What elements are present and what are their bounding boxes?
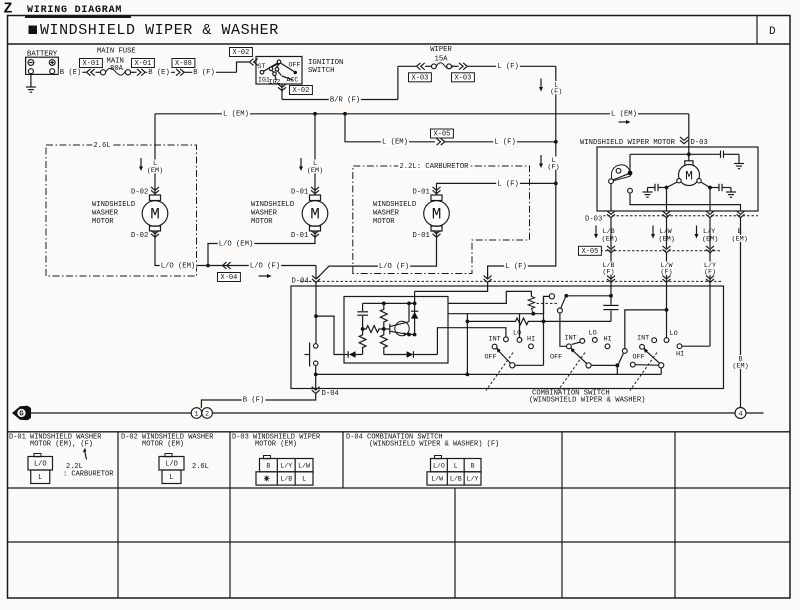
svg-text:2: 2 (205, 410, 209, 418)
svg-text:L/B: L/B (450, 476, 462, 483)
label L/Y (F) (703, 262, 717, 269)
wire Q1 emitter node (409, 334, 415, 336)
svg-text:LO: LO (513, 329, 521, 337)
svg-text:B: B (471, 462, 475, 469)
wire cam P1 to L/B column (610, 184, 612, 211)
svg-text:WASHER: WASHER (373, 209, 400, 217)
wire L(F) vertical drop (555, 66, 557, 183)
svg-text:OFF: OFF (633, 353, 645, 361)
svg-text:D-01: D-01 (413, 188, 430, 196)
wire cam pivot to top bus (629, 154, 631, 170)
washer motor D-01 (2.2L carburetor) (433, 187, 441, 194)
wire R3 bottom node (362, 354, 364, 356)
wire L/W (F) segment (666, 253, 668, 338)
switch group 2 mech dashes (558, 353, 585, 391)
svg-text:MOTOR: MOTOR (373, 218, 395, 226)
junction dots H2 (466, 320, 470, 324)
svg-text:MOTOR: MOTOR (251, 218, 273, 226)
switch group 3 HI contact (677, 344, 682, 349)
svg-text:15A: 15A (435, 55, 449, 63)
wire L/O to relay diode D2 (316, 316, 348, 354)
svg-text:L/O: L/O (433, 462, 445, 469)
label L/O (EM) upper (218, 240, 255, 247)
wire L/W column inside box (666, 188, 668, 212)
connector D-03 dashed line (585, 215, 758, 217)
svg-text:L: L (169, 474, 173, 482)
svg-text:2.6L: 2.6L (192, 463, 209, 471)
label L (EM) bus right (610, 110, 638, 117)
svg-text:M: M (310, 205, 320, 223)
svg-text:(EM): (EM) (147, 167, 163, 175)
svg-text:(EM): (EM) (732, 235, 748, 243)
svg-text:MOTOR: MOTOR (92, 218, 114, 226)
wiper motor M (685, 161, 693, 165)
connector X-03 left chevron (417, 63, 425, 70)
wire L/Y (EM) segment (709, 218, 711, 248)
switch group 1 common wire (515, 364, 544, 366)
svg-text:D-02: D-02 (131, 232, 148, 240)
wire relay supply riser (414, 291, 416, 303)
wire battery to main fuse B(E) (58, 71, 86, 73)
svg-text:(F): (F) (602, 268, 614, 276)
svg-text:L (F): L (F) (497, 180, 519, 188)
wire L/W (EM) segment (666, 218, 668, 248)
svg-text:L/W: L/W (431, 476, 443, 483)
junction dot L/W node (665, 308, 669, 312)
label 2.6L (92, 141, 111, 148)
svg-text:L/O (F): L/O (F) (250, 262, 280, 270)
connector drawing D-04 (435, 456, 442, 459)
label L/O (EM) left (160, 262, 197, 269)
ignition switch S1 box (256, 57, 302, 85)
table column x=675 (674, 432, 676, 598)
svg-text:X-02: X-02 (233, 49, 250, 57)
svg-text:X-05: X-05 (434, 131, 451, 139)
washer motor D-02 (2.6L) (151, 187, 159, 194)
flow arrows EM columns (595, 226, 597, 236)
svg-text:B (F): B (F) (193, 69, 215, 77)
label D-03 lower (584, 215, 603, 222)
wire ignition switch output (281, 84, 283, 100)
relay contact C (557, 308, 562, 313)
switch group 3 INT contact (652, 338, 657, 343)
resistor R4 vertical (380, 329, 387, 355)
switch group 1 arm (497, 350, 510, 364)
svg-text:G: G (19, 411, 24, 419)
ground G1 in wiper motor (734, 163, 744, 165)
svg-text:(WINDSHIELD WIPER & WASHER): (WINDSHIELD WIPER & WASHER) (529, 396, 645, 404)
connector X-05 dashed line (578, 250, 722, 252)
connector X-05 chevrons (607, 246, 615, 253)
svg-text:L/O: L/O (34, 461, 47, 469)
svg-text:L/O (EM): L/O (EM) (219, 240, 254, 248)
wire group 2 dot to bus (616, 365, 618, 374)
svg-text:L/B: L/B (280, 476, 292, 483)
label X-01 left (80, 59, 103, 68)
wire C to g2 fed circle (560, 345, 567, 346)
ground bus wire left (31, 412, 191, 414)
table row line 2 (8, 487, 791, 489)
svg-text:HI: HI (527, 336, 535, 344)
svg-text:LO: LO (670, 330, 678, 338)
wire motor left brush (667, 182, 678, 188)
svg-text:(EM): (EM) (659, 235, 675, 243)
wire L/O to X-04 (210, 265, 316, 267)
svg-text:HI: HI (676, 351, 684, 359)
connector X-08 chevron (176, 69, 184, 76)
svg-text:LO: LO (589, 329, 597, 337)
connector D-03 chevrons (607, 211, 615, 218)
label X-05 right (579, 246, 602, 255)
ground G3 in wiper motor (726, 191, 736, 193)
svg-text:X-03: X-03 (455, 75, 472, 83)
svg-text:1: 1 (194, 410, 198, 418)
flow arrow X-04 (259, 275, 269, 277)
svg-text:WASHER: WASHER (92, 209, 119, 217)
ground bus wire middle (212, 412, 735, 414)
svg-text:(F): (F) (550, 88, 562, 96)
svg-text:(EM): (EM) (702, 235, 718, 243)
switch group 1 common (510, 363, 515, 368)
label X-03 left (409, 73, 432, 82)
junction dots relay top bus (382, 302, 386, 306)
LO1 riser from H1 (519, 314, 521, 338)
wire X-08 to ignition B(F) (185, 71, 237, 73)
switch group 1 INT contact (504, 337, 509, 342)
wiper fuse F2 15A (425, 65, 432, 67)
relay top bus (363, 302, 415, 304)
wire branch to L(F) junction (445, 141, 556, 143)
diode D2 (left, points left) (347, 351, 349, 358)
table column x=455 (rows2-3) (454, 488, 456, 598)
junction dot L/O lines (206, 264, 210, 268)
switch group 2 junction dot (615, 363, 619, 367)
switch group 2 common wire (591, 364, 615, 366)
label L/B (F) (601, 262, 615, 269)
V2 rail (543, 296, 545, 365)
svg-text:D-01: D-01 (291, 232, 308, 240)
svg-text:L/O (F): L/O (F) (379, 263, 409, 271)
label X-02 lower (290, 86, 313, 95)
capacitor C2 (left) (654, 184, 656, 191)
svg-text:WIPER: WIPER (430, 46, 452, 54)
switch group 3 arm (644, 350, 659, 364)
svg-text:X-01: X-01 (135, 60, 152, 68)
svg-text:B (E): B (E) (60, 69, 82, 77)
joint circle 2 (202, 408, 213, 419)
table column x=118 (117, 432, 119, 598)
svg-text:WIRING DIAGRAM: WIRING DIAGRAM (27, 5, 122, 16)
flow arrow L(EM) D-01 (300, 158, 302, 168)
svg-text:2.2L: CARBURETOR: 2.2L: CARBURETOR (399, 163, 469, 171)
switch group 1 LO contact (517, 338, 522, 343)
junction dot L(F)/motor feed (554, 182, 558, 186)
svg-text:L/O: L/O (165, 461, 178, 469)
switch group 2 park arm (619, 353, 624, 364)
wire L(EM) main bus (155, 113, 689, 115)
label L/W (F) (659, 262, 673, 269)
svg-text:X-01: X-01 (83, 60, 100, 68)
svg-text:4: 4 (738, 410, 742, 418)
svg-text:L/Y: L/Y (467, 476, 479, 483)
wire B/R(F) to wiper fuse (282, 99, 398, 101)
svg-text:L (EM): L (EM) (611, 111, 637, 119)
switch group 3 OFF wire (635, 364, 658, 367)
junction dot washer/B bus (314, 373, 318, 377)
label L (EM) at D-01 (312, 160, 318, 167)
switch group 3 LO contact (on L/W) (664, 338, 669, 343)
svg-text:L (EM): L (EM) (223, 111, 249, 119)
svg-text:X-03: X-03 (412, 75, 429, 83)
wire fuse to L(F) drop (468, 65, 556, 67)
dash-dot box 2.6L (46, 145, 197, 276)
junction dot coil bottom (531, 312, 535, 316)
label L/O (F) (249, 262, 281, 269)
junction dot L/O split (314, 314, 318, 318)
wire L/B (EM) segment (610, 218, 612, 248)
wire cam P2 to B line (630, 193, 741, 211)
cam pivot dot (628, 171, 633, 176)
wire L(F) into combination switch (488, 183, 556, 278)
dash-dot box 2.2L CARBURETOR (353, 166, 530, 274)
wire L/O inside box (315, 282, 317, 344)
connector drawing D-01 (34, 454, 41, 457)
wire into wiper fuse (398, 65, 416, 67)
svg-text:L/W: L/W (298, 462, 310, 469)
svg-text:B/R (F): B/R (F) (330, 96, 360, 104)
switch group 2 park wire to L/W (625, 310, 665, 349)
svg-text:WINDSHIELD: WINDSHIELD (92, 201, 135, 209)
connector X-04 chevron (223, 262, 231, 269)
svg-text:MOTOR (EM): MOTOR (EM) (255, 441, 297, 449)
svg-text:L (F): L (F) (497, 63, 519, 71)
svg-text:B (E): B (E) (148, 69, 170, 77)
svg-text:(F): (F) (547, 163, 559, 171)
svg-text:: CARBURETOR: : CARBURETOR (63, 470, 114, 478)
svg-text:L (F): L (F) (494, 139, 516, 147)
label X-08 (172, 59, 195, 68)
svg-text:L/O (EM): L/O (EM) (161, 262, 196, 270)
header D cell divider (756, 16, 758, 45)
svg-text:D-01: D-01 (413, 232, 430, 240)
svg-text:WINDSHIELD WIPER & WASHER: WINDSHIELD WIPER & WASHER (40, 22, 279, 39)
resistor R3 vertical (359, 329, 366, 355)
connector drawing D-02 (165, 454, 172, 457)
table column x=343 (row1) (342, 432, 344, 488)
wiper motor box (597, 147, 758, 211)
svg-text:(F): (F) (660, 268, 672, 276)
cam arm (611, 174, 628, 181)
transistor Q1 (395, 321, 409, 335)
svg-text:L: L (302, 476, 306, 483)
switch group 1 arm top circle (492, 344, 497, 349)
svg-text:(EM): (EM) (732, 362, 748, 370)
connector D-04 chevron L/O (312, 276, 320, 283)
svg-text:MOTOR (EM): MOTOR (EM) (142, 441, 184, 449)
junction dot V1 bus (466, 373, 470, 377)
wire contact C drop (559, 313, 561, 345)
svg-text:X-05: X-05 (582, 248, 599, 256)
wire D-01 motor to L/O junction (208, 231, 315, 266)
switch group 1 HI contact (529, 344, 534, 349)
connector X-02 lower chevron (278, 84, 286, 91)
capacitor C1 (top right) (720, 151, 722, 158)
svg-text:D-01: D-01 (291, 188, 308, 196)
connector D-04 chevrons right (607, 276, 615, 283)
switch group 2 LO contact (592, 338, 597, 343)
svg-text:MOTOR (EM), (F): MOTOR (EM), (F) (30, 441, 93, 449)
label X-01 right (132, 59, 155, 68)
svg-text:X-08: X-08 (175, 60, 192, 68)
wire group 3 common to bus (660, 368, 662, 375)
svg-text:B: B (266, 462, 270, 469)
svg-text:WINDSHIELD: WINDSHIELD (373, 201, 416, 209)
label X-04 (218, 273, 241, 282)
junction dot wiper motor top (687, 152, 691, 156)
junction dot base node (382, 327, 386, 331)
svg-text:(F): (F) (704, 268, 716, 276)
washer push switch SW (314, 344, 318, 348)
wire L(F) to relay supply (415, 282, 488, 292)
wire D-02 motor to L/O junction (155, 231, 206, 266)
diode D3 (right, points right) (384, 354, 407, 356)
switch group 2 fed circle (567, 344, 572, 349)
switch group 2 park contact (622, 349, 627, 354)
diode D1 vertical (414, 303, 416, 334)
switch group 1 mech dashes (486, 353, 513, 391)
header strip bottom line (8, 43, 791, 45)
relay H1 rail (448, 313, 544, 315)
svg-text:IGNITION: IGNITION (308, 59, 343, 67)
cam plate (park switch) (611, 165, 631, 181)
connector X-01 left chevron (87, 69, 95, 76)
V1 common rail (466, 314, 468, 375)
svg-text:B (F): B (F) (243, 397, 265, 405)
junction dot C4 bottom (361, 327, 365, 331)
main fuse F1 80A (96, 71, 101, 73)
resistor R1 vertical (380, 303, 387, 329)
switch group 3 common (659, 363, 664, 368)
flow arrow L(EM) D-02 (140, 158, 142, 168)
connector D-04 chevron L(F) (484, 276, 492, 283)
svg-text:L: L (454, 462, 458, 469)
cam contact P2 (628, 188, 633, 193)
switch group 2 common (586, 363, 591, 368)
wire 2.2L motor return L/O(F) (317, 231, 437, 279)
wire B(F) from D-04 (201, 393, 315, 409)
ignition switch contacts (277, 60, 281, 64)
switch group 2 arm (571, 349, 587, 363)
wire washer switch to B bus (315, 365, 317, 388)
svg-text:M: M (432, 205, 442, 223)
table row line 3 (8, 541, 791, 543)
svg-text:INT: INT (489, 335, 501, 343)
label X-03 right (452, 73, 475, 82)
wire L/B (F) segment (610, 253, 612, 296)
svg-text:(EM): (EM) (307, 167, 323, 175)
label 2.2L: CARBURETOR (398, 162, 469, 169)
label X-02 upper (230, 48, 253, 57)
connector X-05 chevron on branch (437, 138, 445, 145)
relay arm pivot dot (564, 294, 568, 298)
joint circle 4 (735, 408, 746, 419)
label B (F) bottom (242, 396, 266, 403)
resistor R2 horizontal (363, 326, 384, 333)
svg-text:L (F): L (F) (505, 263, 527, 271)
wire 2.2L motor feed L(F) (437, 183, 556, 195)
switch group 2 HI contact (605, 344, 610, 349)
connector X-02 chevron (250, 59, 258, 66)
wire L/Y column inside box (709, 188, 711, 212)
relay unit inner box (344, 297, 448, 364)
wire bus branch to X-05 line (345, 114, 435, 142)
flow arrow L(F) lower (540, 155, 542, 165)
connector X-03 right chevron (459, 63, 467, 70)
wire L/O drop to combination switch (315, 266, 317, 279)
capacitor C3 (right) (718, 184, 720, 191)
shield ground G symbol (12, 406, 31, 420)
svg-text:ST: ST (258, 63, 266, 70)
switch group 3 fed circle (640, 344, 645, 349)
wiper motor top bus (630, 153, 721, 155)
svg-text:D-02: D-02 (131, 188, 148, 196)
connector chevron after fuse (137, 69, 145, 76)
wire bus to wiper motor (688, 114, 690, 161)
svg-text:INT: INT (565, 334, 577, 342)
svg-text:L: L (38, 474, 42, 482)
switch group 2 INT contact (580, 339, 585, 344)
switch group 3 OFF contact (630, 362, 635, 367)
svg-text:MAIN FUSE: MAIN FUSE (97, 47, 136, 55)
label L (F) upper (553, 81, 559, 88)
table top line (8, 431, 791, 433)
svg-text:OFF: OFF (289, 61, 301, 68)
svg-text:D-03: D-03 (585, 215, 602, 223)
wire bus down to washer motor D-02 (154, 114, 156, 195)
contact A riser (544, 296, 550, 313)
svg-text:(EM): (EM) (602, 235, 618, 243)
table column x=562 (561, 432, 563, 598)
svg-text:L (EM): L (EM) (382, 139, 408, 147)
relay contact A (549, 294, 554, 299)
label L (EM) at D-02 (152, 160, 158, 167)
svg-text:SWITCH: SWITCH (308, 67, 335, 75)
label L (EM) branch (381, 138, 409, 145)
switch group 3 HI wire to L/Y (682, 345, 710, 347)
svg-text:D-03: D-03 (691, 139, 708, 147)
connector D-04 chevron bottom (312, 387, 320, 394)
flow arrow L(F) upper (540, 79, 542, 89)
flow arrow bus right (619, 121, 628, 123)
B bus inside combination switch (316, 373, 662, 375)
relay H2 rail with resistor R5 (467, 318, 543, 325)
connector drawing D-03 (264, 456, 271, 459)
wire riser into ignition switch (237, 62, 250, 72)
svg-text:X-04: X-04 (221, 274, 238, 282)
wire pivot to L/B (566, 295, 611, 297)
wire L/Y (F) segment (709, 253, 711, 346)
svg-text:OFF: OFF (485, 353, 497, 361)
cam contact P1 (609, 179, 614, 184)
wire relay coil feed (448, 291, 531, 303)
wire B (EM) segment (740, 218, 742, 407)
relay coil K1 (528, 297, 534, 314)
svg-text:HI: HI (604, 336, 612, 344)
mechanical link dashes (537, 302, 558, 304)
junction dot L(F)/X-05 branch (554, 140, 558, 144)
switch group 2 INT link (572, 342, 580, 344)
switch group 3 mech dashes (630, 353, 657, 391)
